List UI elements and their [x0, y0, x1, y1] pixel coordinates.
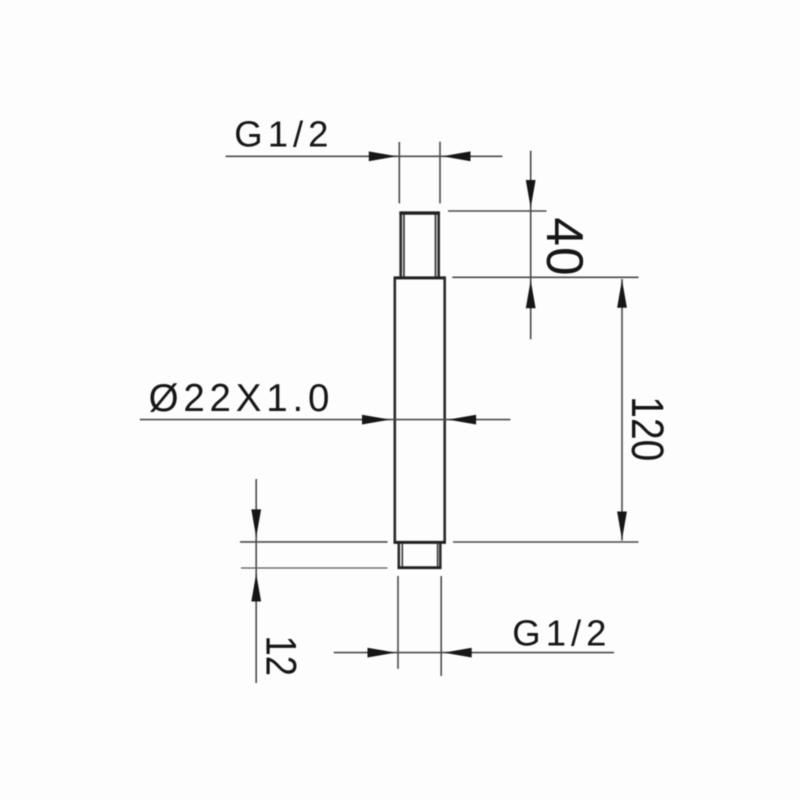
dimension lines [140, 142, 639, 683]
bottom extension line right [440, 576, 442, 676]
svg-text:120: 120 [622, 396, 673, 461]
svg-text:G1/2: G1/2 [512, 613, 611, 654]
arrow 120 down [617, 512, 627, 540]
pipe top tube inner wall lines [404, 215, 436, 277]
bottom G1/2 dimension line [334, 652, 614, 654]
bottom extension line left [397, 576, 399, 669]
arrow 40 down [526, 180, 536, 208]
arrow diameter right [448, 415, 476, 425]
arrow top G1/2 right [443, 151, 471, 161]
pipe top tube top edge [399, 211, 440, 214]
svg-text:Ø22X1.0: Ø22X1.0 [149, 377, 335, 420]
12 lower extension line [241, 567, 388, 569]
pipe top tube outline [401, 212, 439, 278]
pipe bottom nub bottom edge [398, 566, 442, 569]
120 dimension vertical line [621, 279, 623, 541]
top extension line right [439, 142, 441, 204]
diameter dimension line [140, 419, 511, 421]
40/120 shared extension line [452, 276, 638, 278]
arrow 40 up [526, 280, 536, 308]
arrow diameter left [362, 415, 390, 425]
arrow 120 up [617, 280, 627, 308]
pipe bottom nub inner wall lines [402, 544, 437, 568]
pipe body shoulder edge [394, 276, 447, 279]
arrow bottom G1/2 left [368, 648, 396, 658]
arrow bottom G1/2 right [444, 648, 472, 658]
arrow top G1/2 left [369, 151, 397, 161]
arrowheads [251, 151, 627, 657]
top extension line left [398, 142, 400, 203]
pipe bottom nub walls [399, 544, 441, 570]
12 dimension vertical line [255, 479, 257, 683]
pipe body walls [395, 278, 445, 542]
arrow 12 down [251, 509, 261, 537]
svg-text:12: 12 [257, 636, 305, 677]
arrow 12 up [251, 574, 261, 602]
pipe body bottom edge [394, 541, 447, 544]
120 bottom extension line [453, 541, 639, 543]
40 dimension vertical line [530, 151, 532, 339]
12 upper extension line [240, 541, 388, 543]
svg-text:40: 40 [536, 217, 594, 276]
40 top extension line [448, 210, 547, 212]
top G1/2 dimension line [226, 155, 503, 157]
svg-text:G1/2: G1/2 [234, 114, 333, 155]
